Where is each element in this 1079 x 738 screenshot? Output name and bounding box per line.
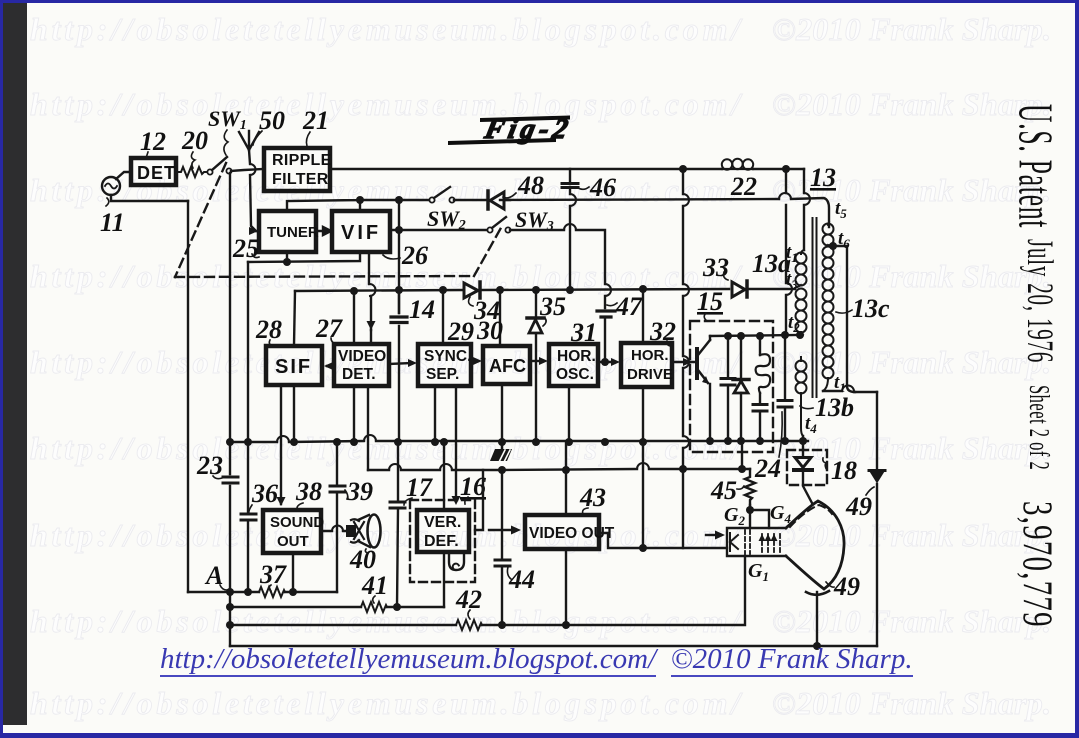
arrow tuner to vif — [316, 227, 331, 235]
transformer 13 label — [810, 163, 836, 192]
label 13b — [815, 393, 854, 422]
svg-text:25: 25 — [232, 234, 259, 263]
wire hor osc to hor drive — [598, 361, 614, 363]
label 11 — [100, 208, 125, 237]
resistor 45 vertical — [745, 469, 755, 506]
cap 36 — [241, 514, 256, 520]
arrow into crt — [706, 534, 717, 536]
cap 46 vertical — [569, 169, 571, 290]
label 22 — [730, 172, 757, 201]
tuner box — [259, 211, 316, 252]
label SW2 — [427, 206, 466, 233]
resistor 41 — [361, 602, 387, 612]
svg-text:23: 23 — [196, 451, 223, 480]
blue caption — [160, 643, 913, 676]
node — [498, 438, 506, 446]
svg-text:40: 40 — [349, 545, 376, 574]
SIF box — [266, 346, 322, 385]
node — [781, 437, 789, 445]
svg-text:36: 36 — [251, 479, 278, 508]
label 40 — [349, 545, 376, 574]
svg-text:30: 30 — [476, 316, 503, 345]
svg-text:32: 32 — [649, 317, 676, 346]
sound out bottom lead — [292, 553, 294, 592]
arrow videodet to sif — [327, 365, 333, 367]
node — [226, 621, 234, 629]
node — [244, 588, 252, 596]
diode 33 — [732, 282, 745, 297]
label 45 — [710, 476, 737, 505]
svg-text:20: 20 — [181, 126, 208, 155]
svg-text:18: 18 — [831, 456, 857, 485]
arrow into video det — [367, 321, 376, 330]
hor osc box — [549, 344, 598, 386]
node — [724, 332, 732, 340]
cap 23 — [223, 477, 238, 483]
node — [289, 588, 297, 596]
label 25 — [232, 234, 259, 263]
cap39 line x337 — [336, 442, 338, 592]
CRT inner dashed — [790, 505, 832, 527]
wire syncsep to afc — [471, 360, 477, 362]
label 18 — [831, 456, 857, 485]
G4 feed — [750, 510, 769, 528]
bus y442 — [230, 441, 808, 442]
resistor 37 — [259, 587, 285, 597]
switch SW2 — [429, 197, 434, 202]
primary winding 13b — [796, 357, 807, 436]
label 49 bottom — [833, 572, 860, 601]
node — [226, 438, 234, 446]
arrow into sound out — [277, 497, 286, 506]
svg-text:SEP.: SEP. — [426, 366, 459, 383]
label 14 — [409, 295, 435, 324]
hor drive box — [621, 343, 672, 387]
node — [799, 437, 807, 445]
CRT funnel and screen — [786, 501, 844, 589]
svg-text:13: 13 — [810, 163, 836, 192]
hop x804 over y199 — [804, 193, 810, 205]
video det bottom leads — [354, 386, 368, 470]
arrow into ver def — [452, 496, 461, 505]
svg-text:DET: DET — [137, 163, 176, 183]
secondary winding t6-t1 — [823, 247, 834, 392]
svg-text:17: 17 — [406, 473, 433, 502]
diode 35 vertical — [535, 290, 537, 442]
node A — [226, 588, 234, 596]
rail corner down to primary top — [803, 169, 805, 250]
wire y230 vif to sw3 — [391, 229, 487, 231]
label 47 — [615, 292, 643, 321]
speaker 40 — [347, 526, 355, 536]
G4 arrows — [759, 534, 778, 541]
node — [498, 466, 506, 474]
label 42 — [455, 585, 482, 614]
right edge wire x877 — [876, 392, 878, 646]
cap 39 — [330, 486, 345, 492]
wire y470 — [368, 469, 750, 470]
svg-text:t2: t2 — [788, 312, 800, 335]
node — [738, 465, 746, 473]
svg-text:t5: t5 — [835, 198, 847, 221]
diode 35 — [527, 316, 544, 320]
hops on bus442 — [277, 435, 376, 442]
label 26 — [401, 241, 428, 270]
svg-text:OUT: OUT — [277, 533, 309, 550]
arrow into video out — [489, 529, 513, 531]
node t6 — [829, 242, 837, 250]
node — [737, 437, 745, 445]
vertical x248 — [247, 262, 249, 592]
tuner bottom lead — [286, 252, 288, 262]
svg-text:FILTER: FILTER — [272, 171, 329, 188]
CRT cathode chevron — [730, 533, 738, 551]
svg-text:HOR.: HOR. — [557, 348, 596, 365]
video det box — [334, 344, 389, 386]
wire y646 — [230, 645, 877, 647]
t6 wire — [833, 246, 855, 392]
hop x786 over bus289 — [786, 283, 792, 295]
label 44 — [508, 565, 535, 594]
labels t1 t3 t2 t4 left — [786, 198, 850, 436]
svg-text:45: 45 — [710, 476, 737, 505]
node — [639, 285, 647, 293]
node — [439, 286, 447, 294]
svg-text:SYNC.: SYNC. — [424, 348, 471, 365]
node — [394, 438, 402, 446]
dashed gang line horizontal — [175, 276, 474, 277]
node — [566, 286, 574, 294]
primary winding t3-t2 — [796, 289, 807, 336]
svg-text:48: 48 — [517, 171, 544, 200]
svg-text:OSC.: OSC. — [556, 366, 594, 383]
node — [782, 165, 790, 173]
cap 24 line x785 — [784, 335, 786, 441]
antenna 50 — [239, 131, 259, 150]
node — [498, 621, 506, 629]
svg-text:G4: G4 — [770, 502, 791, 526]
B+ vertical x683 — [682, 169, 684, 548]
CRT base wire — [816, 592, 818, 646]
svg-text:SIF: SIF — [275, 356, 312, 378]
svg-text:SW1: SW1 — [208, 106, 247, 133]
label 12 — [140, 127, 166, 156]
node — [756, 437, 764, 445]
right margin patent text — [1011, 104, 1059, 228]
video out box — [525, 515, 599, 549]
node — [639, 438, 647, 446]
node — [393, 603, 401, 611]
ver def box — [417, 510, 469, 552]
node — [565, 438, 573, 446]
node — [737, 332, 745, 340]
hop arcs on x570 — [570, 194, 576, 206]
sound out box — [263, 510, 321, 553]
SIF top lead — [294, 291, 295, 345]
x643 vertical — [642, 442, 644, 548]
node — [562, 466, 570, 474]
svg-text:46: 46 — [589, 173, 616, 202]
label SW3 — [515, 207, 554, 234]
svg-text:G2: G2 — [724, 504, 745, 528]
label 35 — [539, 292, 566, 321]
secondary winding t5-t6 — [823, 222, 834, 246]
label 39 — [346, 477, 373, 506]
node t2 — [796, 331, 804, 339]
cap in 15 box — [727, 336, 729, 441]
wire y625 — [230, 556, 745, 625]
svg-text:22: 22 — [730, 172, 757, 201]
afc box — [483, 346, 530, 384]
antenna feed wire to tuner — [249, 150, 256, 231]
rail y336 — [710, 335, 800, 336]
afc bottom lead — [501, 384, 503, 449]
transistor Q — [695, 349, 699, 378]
vif box — [332, 211, 390, 252]
wire videodet to syncsep — [389, 363, 412, 364]
label 38 — [295, 477, 322, 506]
cap 44 line x502 — [501, 470, 503, 625]
label 20 — [181, 126, 208, 155]
node — [639, 544, 647, 552]
svg-text:24: 24 — [754, 454, 781, 483]
vertical x786 from rail — [785, 169, 787, 335]
sync sep top lead — [442, 290, 444, 343]
node — [350, 287, 358, 295]
svg-text:t1: t1 — [786, 242, 798, 265]
hops on x683 — [683, 194, 689, 448]
label 37 — [259, 560, 287, 589]
svg-text:28: 28 — [255, 315, 282, 344]
svg-text:t1: t1 — [834, 372, 846, 395]
svg-text:49: 49 — [833, 572, 860, 601]
svg-text:13b: 13b — [815, 393, 854, 422]
ripple filter box — [264, 148, 330, 191]
hop x605 over bus290 — [605, 284, 611, 296]
wire sw3 right to x605 down — [510, 230, 605, 308]
SW1 down wire x230 — [229, 173, 231, 646]
node — [395, 286, 403, 294]
label 16 — [460, 472, 486, 501]
node — [226, 603, 234, 611]
switch SW1 — [207, 169, 212, 174]
hop arc on y230 at x570 — [564, 224, 576, 230]
svg-text:VER.: VER. — [424, 514, 461, 531]
dashed box 15 — [690, 321, 773, 452]
resistor 20 — [178, 167, 206, 177]
diode 18 — [803, 450, 812, 503]
wire afc to hor osc — [530, 360, 543, 362]
node — [395, 196, 403, 204]
wire diode48 right with hops — [500, 198, 829, 227]
svg-text:49: 49 — [845, 492, 872, 521]
cap 24 — [778, 401, 792, 408]
svg-text:44: 44 — [508, 565, 535, 594]
label 15 — [697, 287, 723, 316]
G1 below neck dashed — [744, 556, 746, 568]
label 29 — [447, 317, 474, 346]
label 13c — [852, 294, 890, 323]
video out to crt wire — [599, 533, 727, 548]
node — [724, 437, 732, 445]
svg-text:VIF: VIF — [341, 222, 381, 244]
watermark rows — [30, 11, 1051, 48]
label G4 — [770, 502, 791, 526]
svg-text:13c: 13c — [852, 294, 890, 323]
sync sep bottom leads — [435, 386, 456, 500]
cap 47 — [597, 311, 615, 317]
cap 46 — [562, 184, 578, 188]
svg-text:27: 27 — [315, 314, 343, 343]
node — [781, 331, 789, 339]
label 41 — [361, 571, 388, 600]
svg-text:21: 21 — [302, 106, 329, 135]
video det top lead — [353, 291, 355, 343]
diode 34 — [464, 283, 478, 298]
CRT neck — [727, 528, 786, 556]
wire source to DET — [116, 172, 129, 179]
source circle 11 — [102, 177, 120, 195]
cap 14 — [391, 317, 407, 323]
CRT bottom arc — [806, 591, 829, 595]
cap 44 — [495, 560, 510, 566]
node — [756, 332, 764, 340]
svg-text:DET.: DET. — [342, 366, 376, 383]
cap 14 line — [398, 290, 400, 313]
svg-text:RIPPLE: RIPPLE — [272, 152, 332, 169]
svg-text:DEF.: DEF. — [424, 533, 459, 550]
node — [395, 226, 403, 234]
node — [283, 258, 291, 266]
label 36 — [251, 479, 278, 508]
arrow into tuner — [249, 227, 258, 235]
svg-text:31: 31 — [570, 318, 597, 347]
svg-text:14: 14 — [409, 295, 435, 324]
label 48 — [517, 171, 544, 200]
dashed gang line sw3 — [474, 226, 502, 276]
node — [601, 438, 609, 446]
svg-text:38: 38 — [295, 477, 322, 506]
node — [562, 621, 570, 629]
sync sep box — [418, 344, 471, 386]
svg-text:39: 39 — [346, 477, 373, 506]
coil and cap branch in 15 box — [759, 336, 761, 441]
diode 48 — [486, 191, 490, 209]
core lines — [813, 218, 817, 397]
hops on y470 — [389, 463, 649, 470]
afc top lead — [499, 290, 501, 345]
cap 17 line — [397, 442, 398, 607]
hop arcs on y200 wire at x570,x683,x786 — [779, 193, 791, 199]
label 31 — [570, 318, 597, 347]
t1 tap wire — [823, 391, 877, 392]
svg-text:G1: G1 — [748, 560, 769, 584]
svg-text:TUNER: TUNER — [267, 224, 319, 241]
svg-text:42: 42 — [455, 585, 482, 614]
svg-text:50: 50 — [259, 106, 285, 135]
node — [244, 438, 252, 446]
label 50 — [259, 106, 285, 135]
label 17 — [406, 473, 433, 502]
wire y200 tuner top — [287, 200, 429, 210]
label G2 — [724, 504, 745, 528]
node — [496, 286, 504, 294]
node — [431, 438, 439, 446]
page frame — [0, 0, 1079, 3]
node — [356, 196, 364, 204]
ver def through-wire x444 — [443, 442, 445, 607]
cap 17 — [390, 502, 405, 508]
node — [706, 437, 714, 445]
label 43 — [579, 483, 606, 512]
label 49 top — [845, 492, 872, 521]
hor drive bottom lead — [642, 387, 644, 442]
wire source bottom to lower-left vertical — [111, 195, 188, 201]
svg-text:37: 37 — [259, 560, 287, 589]
svg-text:15: 15 — [697, 287, 723, 316]
tuner bottom wire y262 — [248, 252, 360, 262]
svg-text:SOUND: SOUND — [270, 514, 324, 531]
SIF bottom leads — [281, 385, 294, 504]
Fig-2 title — [448, 114, 575, 145]
svg-text:DRIVE: DRIVE — [627, 366, 673, 383]
node — [679, 165, 687, 173]
label 30 — [476, 316, 503, 345]
node — [333, 438, 341, 446]
label 23 — [196, 451, 223, 480]
label A — [204, 561, 223, 590]
wire hor drive to transistor — [672, 361, 696, 363]
svg-text:35: 35 — [539, 292, 566, 321]
svg-text:43: 43 — [579, 483, 606, 512]
svg-text:12: 12 — [140, 127, 166, 156]
svg-text:29: 29 — [447, 317, 474, 346]
G2 feed — [749, 505, 751, 528]
node — [350, 438, 358, 446]
dashed box 16 — [410, 500, 475, 582]
label 27 — [315, 314, 343, 343]
label 33 — [702, 253, 729, 282]
node — [679, 465, 687, 473]
label 34 — [473, 296, 500, 325]
label 21 — [302, 106, 329, 135]
svg-text:t6: t6 — [838, 228, 850, 251]
wire sw2 to diode48 — [454, 199, 510, 201]
top rail y169 — [330, 168, 804, 170]
primary winding t1-t3 — [795, 250, 807, 288]
wire sound out to speaker — [321, 530, 348, 532]
diode in 15 box — [740, 336, 742, 441]
label 24 — [754, 454, 781, 483]
left tall wire x188 — [187, 201, 189, 592]
label 28 — [255, 315, 282, 344]
svg-text:47: 47 — [615, 292, 643, 321]
node 45 bottom — [746, 506, 754, 514]
label SW1 — [208, 106, 247, 133]
wire y607 — [230, 606, 444, 608]
vertical x399 — [398, 200, 400, 442]
svg-text:26: 26 — [401, 241, 428, 270]
vif top lead — [359, 200, 361, 211]
label 32 — [649, 317, 676, 346]
hor drive top lead — [642, 289, 644, 342]
collector/emitter verticals — [709, 336, 711, 441]
svg-text:11: 11 — [100, 208, 125, 237]
ground — [501, 442, 503, 450]
video out vertical x566 — [565, 442, 567, 625]
node — [532, 438, 540, 446]
hor osc bottom lead — [568, 386, 570, 442]
